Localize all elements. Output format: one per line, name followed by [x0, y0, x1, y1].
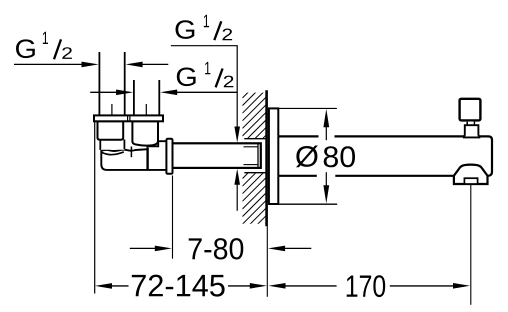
wall flange (escutcheon) [269, 108, 278, 204]
union ring [166, 139, 172, 174]
left supply pipe (vertical) [99, 52, 124, 116]
ball joint under left cup [100, 140, 124, 150]
label G1/2 top-left [16, 32, 72, 59]
diverter knob [460, 99, 481, 121]
left union cup [98, 121, 124, 139]
dimension 170 [268, 185, 470, 305]
right supply pipe (vertical) [134, 80, 159, 116]
dimension line G1/2 left pipe [14, 62, 168, 68]
label G1/2 top-center [176, 15, 233, 40]
leader line from top-center label down to wall pipe [171, 46, 240, 143]
body neck contour line [130, 147, 132, 158]
elbow body block [101, 141, 166, 170]
text 72-145 [132, 275, 225, 297]
text 7-80 [189, 238, 244, 259]
aerator bell [454, 165, 488, 184]
wall hatching lower [242, 154, 266, 247]
wall face line [265, 90, 268, 226]
knob stem notch [467, 122, 474, 126]
text Ø 80 [296, 146, 355, 168]
dimension 7-80 [130, 176, 311, 259]
mounting plate [94, 115, 163, 121]
aerator outlet [464, 178, 477, 184]
arrow pointing up at pipe bottom [234, 169, 240, 211]
body cast ridge wavy line [102, 152, 124, 155]
label G1/2 middle [177, 62, 234, 87]
body contour line [146, 148, 148, 170]
wall hatching upper [242, 74, 266, 167]
outlet pipe to wall [170, 143, 261, 168]
right union cup [132, 121, 158, 145]
text 170 [347, 275, 386, 297]
dimension line G1/2 right pipe [90, 90, 237, 96]
knob stem [463, 125, 480, 137]
wall face extension line [266, 226, 268, 297]
spout tube [278, 136, 492, 175]
dimension 72-145 [95, 122, 267, 294]
wall hole edges [244, 139, 266, 173]
dimension Ø80 [278, 108, 337, 204]
